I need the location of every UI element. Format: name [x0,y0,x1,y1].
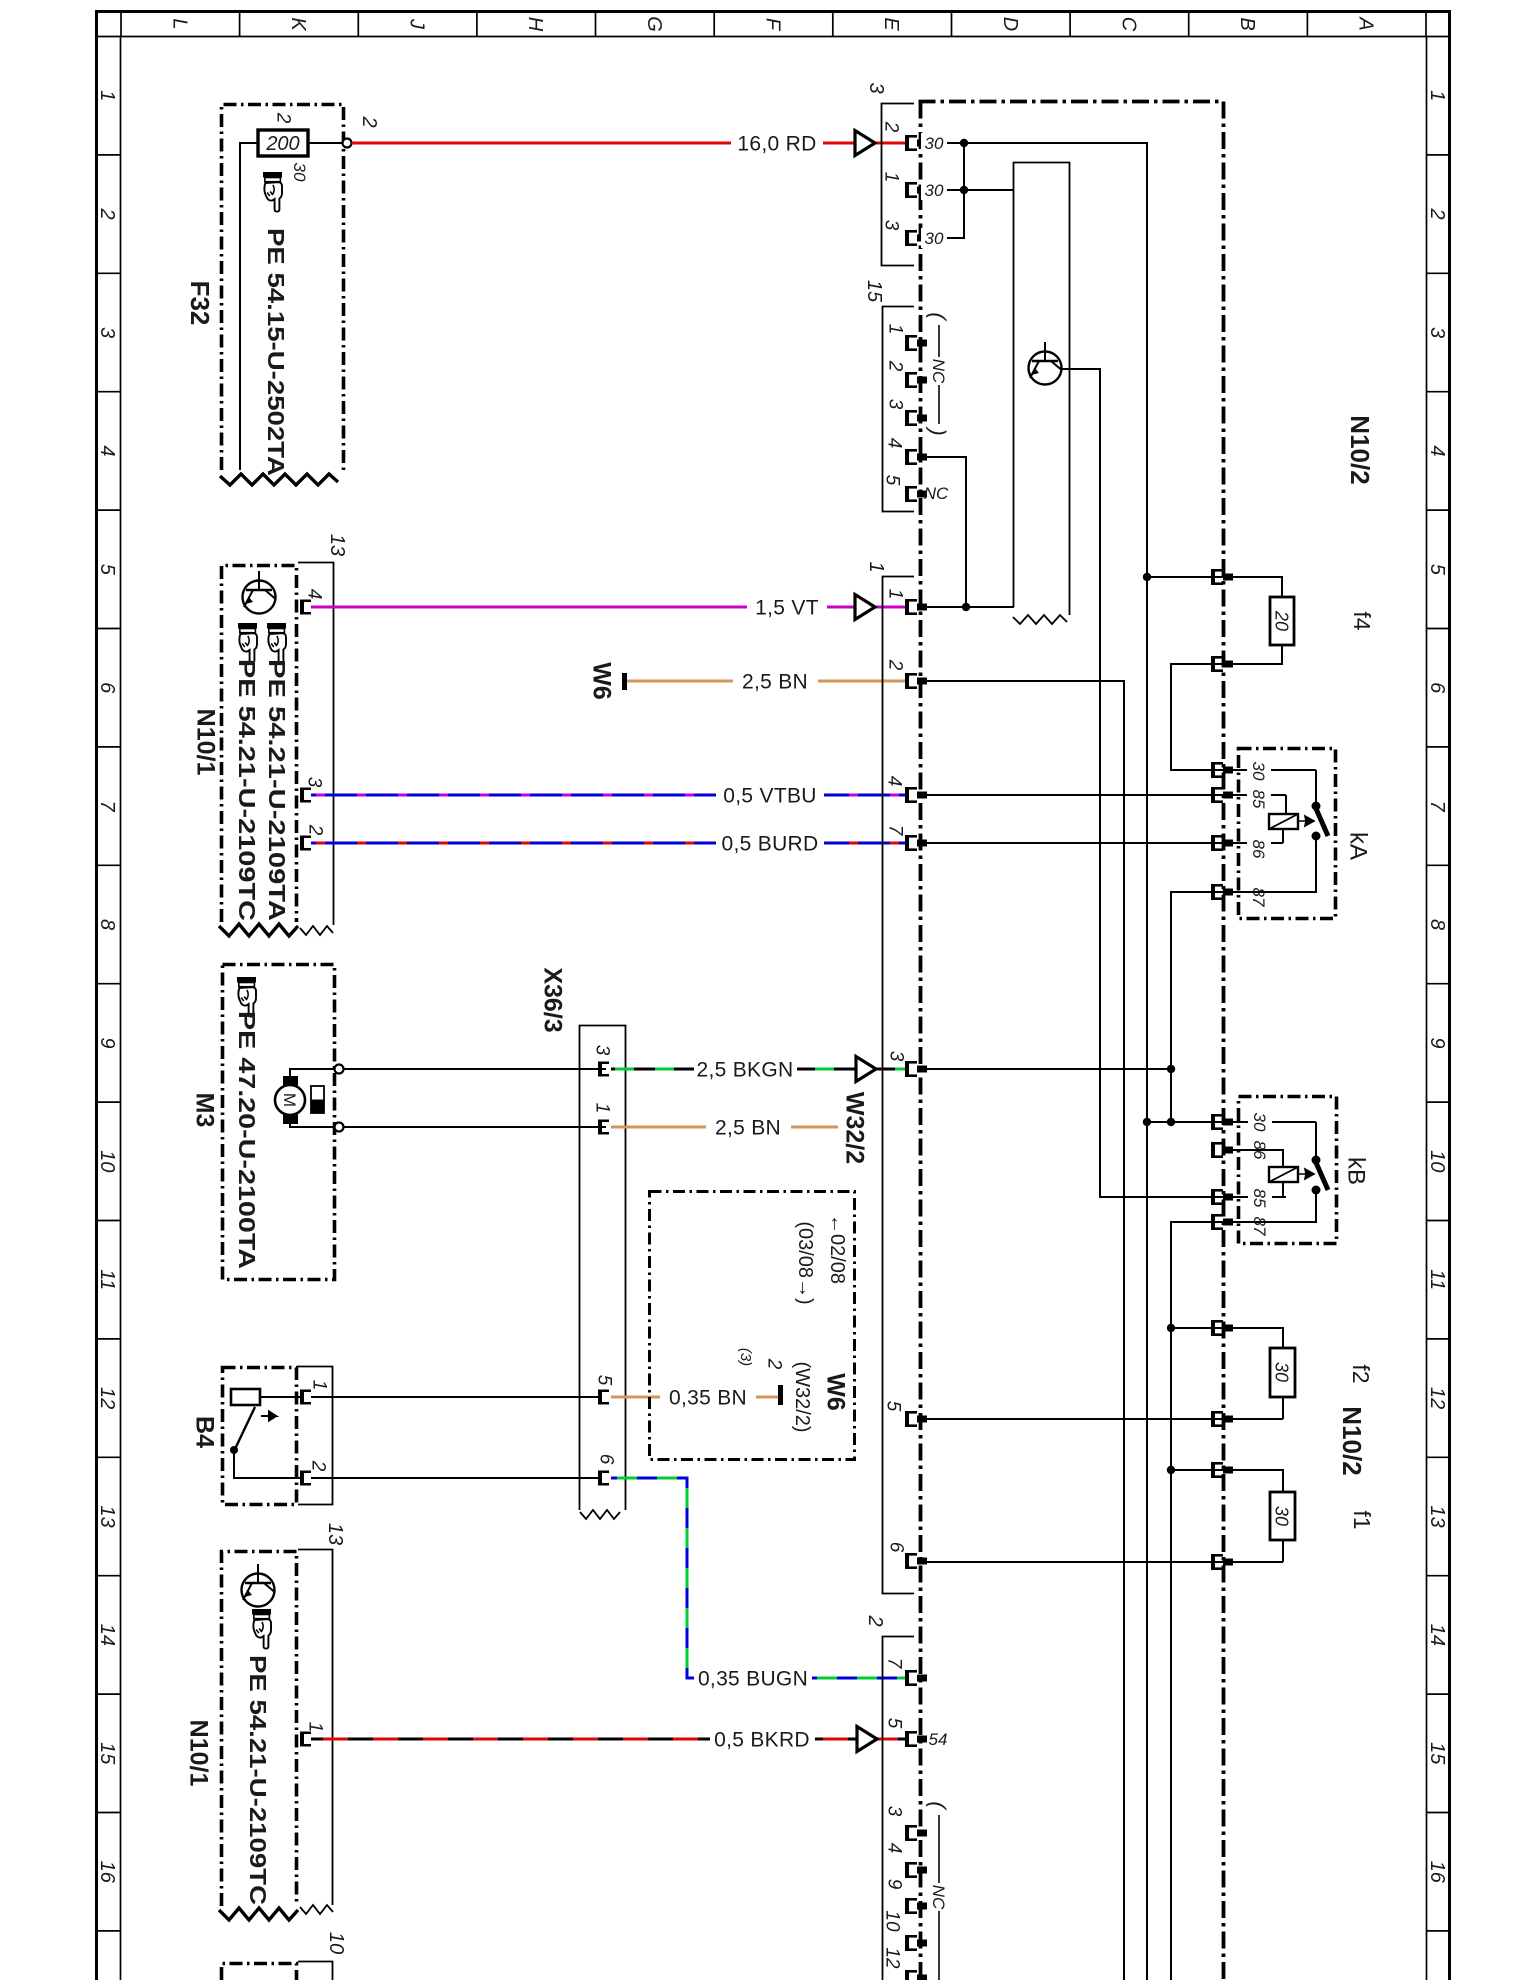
motor wire pin1 side [290,1069,334,1077]
conn3 pin 1 bracket [905,182,927,198]
svg-text:1: 1 [884,589,905,600]
svg-text:W32/2: W32/2 [840,1092,868,1164]
internal wire pin4 to kA-85 [921,794,1286,796]
wire label 0,35 BUGN [694,1667,812,1690]
svg-text:0,35 BUGN: 0,35 BUGN [698,1667,808,1690]
svg-text:85: 85 [1250,1189,1269,1208]
svg-text:J: J [406,18,428,30]
module right edge pin mark kA87 [1211,884,1233,900]
svg-text:7: 7 [1426,801,1448,813]
svg-text:2: 2 [763,1358,784,1370]
wire 2,5 BKGN [611,1068,905,1071]
kB coil [1269,1167,1298,1182]
svg-text:54: 54 [929,1730,948,1749]
conn15 NC line upper [938,325,940,357]
conn15 pin 3 bracket [905,410,927,426]
svg-text:3: 3 [96,327,118,338]
wire 0,5 BURD [311,842,905,845]
motor terminal tab bottom [283,1114,298,1124]
module connector 3 outline [882,104,915,266]
fuse f2 element [1270,1348,1295,1397]
frame top band separators [121,12,1426,37]
kB 85 wire to coil [1282,1182,1284,1197]
wire 0,5 VTBU [311,794,905,797]
conn2 pin 12 bracket [905,1970,927,1980]
svg-text:30: 30 [925,229,944,248]
svg-text:7: 7 [96,801,118,813]
module N10/2 right boundary dash-dot [1222,102,1226,1980]
module right edge pin mark f4 bottom [1211,656,1233,672]
X36/3 pin 5 bracket [598,1390,609,1405]
svg-text:2: 2 [1426,208,1448,220]
conn2 NC line lower [938,1911,940,1980]
svg-text:16: 16 [96,1861,118,1884]
kA switch blade [1314,804,1328,836]
conn15 NC line lower [938,385,940,424]
svg-text:5: 5 [593,1375,614,1386]
kA terminal 86 label [1247,837,1271,860]
output transistor symbol [1029,342,1062,385]
internal wire conn1 pin6 to fuse f1 [921,1561,1283,1563]
wire label 2,5 BKGN [694,1058,797,1081]
kA coil [1269,814,1298,829]
module connector 15 outline [883,307,915,512]
terminal 30 label pin3 [921,228,947,248]
svg-text:6: 6 [595,1454,616,1465]
internal wire conn1 pin5 to fuse f2 [921,1418,1283,1420]
conn1 pin 1 bracket [905,599,927,615]
wire label 2,5 BN [706,1116,791,1139]
fuse f2 output wire [1282,1397,1284,1419]
kA terminal 30 label [1247,759,1271,782]
svg-text:M3: M3 [190,1093,218,1128]
W6 terminal tick [622,673,627,690]
conn3 pin 3 bracket [905,230,927,246]
module right edge pin mark kB87 [1211,1214,1233,1230]
junction dot kA87 to pump [1167,1065,1175,1073]
svg-text:NC: NC [929,1885,948,1910]
svg-text:(03/08→): (03/08→) [794,1221,816,1304]
wire label 0,5 VTBU [716,784,824,807]
svg-text:4: 4 [883,1843,904,1854]
svg-text:←02/08: ←02/08 [826,1214,848,1284]
node circle at F32 output [343,139,352,148]
module right edge pin mark kB85 [1211,1189,1233,1205]
svg-text:2: 2 [304,824,325,836]
wire stub fuse to node [308,142,342,144]
kA switch upper contact dot [1312,802,1321,811]
svg-text:2: 2 [272,112,293,124]
svg-text:E: E [880,17,902,31]
conn1 pin 2 bracket [905,673,927,689]
svg-text:11: 11 [96,1269,118,1290]
svg-text:30: 30 [1272,1506,1292,1526]
svg-text:13: 13 [96,1505,118,1527]
kA 85 wire to coil [1285,795,1287,814]
svg-text:1: 1 [884,324,905,335]
wire label 0,5 BURD [716,832,824,855]
X36/3 pin 1 bracket [598,1120,609,1135]
splice terminal tick [778,1385,783,1405]
svg-text:(W32/2): (W32/2) [791,1361,813,1432]
svg-text:1: 1 [304,1722,325,1733]
node circle at M3 bottom [335,1123,344,1132]
svg-text:16,0 RD: 16,0 RD [737,132,816,155]
svg-text:9: 9 [883,1879,904,1890]
svg-text:2: 2 [96,208,118,220]
splice box W6 dash-dot outline [650,1192,855,1460]
conn15 pin 2 bracket [905,372,927,388]
svg-text:15: 15 [863,280,885,303]
kA switch lower contact dot [1312,832,1321,841]
svg-text:f4: f4 [1349,611,1375,630]
internal transistor symbol [243,571,276,614]
fuse f4 output wire to kA-30 [1171,645,1316,770]
svg-text:6: 6 [1426,682,1448,694]
svg-text:0,35 BN: 0,35 BN [669,1386,747,1409]
module right edge pin mark f2 bottom [1211,1411,1233,1427]
svg-text:13: 13 [326,534,348,556]
kB coil actuation arrow [1298,1169,1314,1179]
svg-text:5: 5 [883,1718,904,1729]
svg-text:4: 4 [1426,445,1448,456]
svg-text:12: 12 [1426,1387,1448,1409]
see-note hand symbol [252,1609,271,1649]
svg-text:4: 4 [96,445,118,456]
junction dot f1 feed [1167,1466,1175,1474]
transistor output wire to kB-85 [1061,369,1286,1197]
svg-text:N10/2: N10/2 [1337,1406,1367,1475]
kA 87 output wire [1171,836,1316,1122]
svg-text:13: 13 [1426,1505,1448,1527]
control unit N10/1 (upper) dash-dot outline [222,566,297,923]
kB switch input riser [1315,1122,1317,1159]
svg-text:3: 3 [1426,327,1448,338]
svg-text:M: M [280,1093,299,1107]
svg-text:10: 10 [325,1932,347,1954]
X36/3 pin 6 bracket [598,1471,609,1486]
svg-text:30: 30 [290,163,309,182]
svg-text:PE 47.20-U-2100TA: PE 47.20-U-2100TA [234,1011,260,1269]
module connector 1 outline [883,577,915,1594]
svg-text:2,5 BN: 2,5 BN [715,1116,781,1139]
module N10/2 left boundary dash-dot [919,102,923,1980]
svg-text:5: 5 [881,475,902,486]
frame left band separators [97,37,121,1931]
svg-text:6: 6 [96,682,118,694]
svg-text:K: K [287,17,309,32]
junction dot pin1 [960,186,968,194]
B4 switch pivot dot [230,1446,238,1454]
svg-text:3: 3 [865,82,887,93]
motor terminal tab top [283,1076,298,1086]
internal transistor symbol [242,1564,275,1607]
conn15 pin 5 bracket [905,486,927,502]
terminal 30 label pin1 [921,180,947,200]
svg-text:PE 54.15-U-2502TA: PE 54.15-U-2502TA [263,228,289,476]
svg-text:4: 4 [303,589,324,600]
svg-text:15: 15 [96,1742,118,1765]
svg-text:PE 54.21-U-2109TC: PE 54.21-U-2109TC [245,1655,271,1905]
svg-text:NC: NC [924,484,949,503]
svg-text:20: 20 [1272,610,1292,631]
svg-text:6: 6 [885,1542,906,1553]
svg-text:PE 54.21-U-2109TA: PE 54.21-U-2109TA [264,659,290,921]
svg-text:8: 8 [96,919,118,930]
kB switch lower contact dot [1312,1186,1321,1195]
terminal 30 label pin2 [921,133,947,153]
pin 2 bracket [300,836,311,851]
svg-text:10: 10 [96,1150,118,1172]
pin 1 bracket [300,1732,311,1747]
kA switch input riser [1315,770,1317,805]
svg-text:0,5 BURD: 0,5 BURD [722,832,819,855]
N10/1 lower connector strip [298,1550,333,1906]
wire M3 to X36/3 pin3 [344,1068,607,1070]
wire 1,5 VT [311,606,905,609]
svg-text:1: 1 [1426,90,1448,101]
svg-text:f2: f2 [1348,1364,1374,1383]
svg-text:3: 3 [591,1045,612,1056]
svg-text:N10/1: N10/1 [184,1720,212,1787]
svg-text:B4: B4 [190,1416,218,1448]
svg-text:11: 11 [1426,1269,1448,1290]
conn2 pin 9 bracket [905,1898,927,1914]
svg-text:2,5 BN: 2,5 BN [742,670,808,693]
fuse f1 feed wire [1171,1470,1283,1492]
svg-text:15: 15 [1426,1742,1448,1765]
svg-text:1: 1 [96,90,118,101]
svg-text:kA: kA [1345,832,1372,860]
fuse f4 element [1270,597,1294,645]
wire 0,35 BUGN vertical run [611,1478,905,1678]
svg-text:1,5 VT: 1,5 VT [755,596,819,619]
svg-text:5: 5 [96,564,118,576]
svg-text:10: 10 [1426,1150,1448,1172]
svg-text:3: 3 [303,777,324,788]
wire label 16,0 RD [731,132,823,155]
svg-text:8: 8 [1426,919,1448,930]
direction arrow on RD wire [855,131,875,156]
svg-text:7: 7 [884,825,905,837]
module connector 2 outline [883,1637,915,1980]
B4 wire to pin2 [234,1452,300,1478]
svg-text:kB: kB [1343,1157,1370,1185]
internal wire pin1 to board [927,189,1014,191]
svg-text:1: 1 [865,561,887,572]
internal wire pin7 to kA-86 [921,842,1283,844]
kB 30 feed wire [1147,1121,1316,1123]
svg-text:30: 30 [1250,1113,1269,1132]
svg-text:9: 9 [1426,1037,1448,1048]
fuse f2 feed wire [1171,1328,1283,1348]
svg-text:86: 86 [1249,840,1268,859]
svg-text:B: B [1236,17,1258,30]
kB terminal 30 label [1248,1110,1272,1133]
fuse f1 element [1270,1492,1295,1540]
kB terminal 86 label [1248,1138,1272,1161]
svg-text:14: 14 [96,1624,118,1646]
svg-text:C: C [1117,17,1139,32]
svg-text:2: 2 [864,1614,886,1626]
internal wire pin3 riser [927,143,964,238]
wire label 1,5 VT [747,596,827,619]
connector X36/3 body [580,1026,626,1511]
kA 86 wire to coil [1282,829,1284,843]
svg-text:87: 87 [1250,1217,1269,1236]
B4 sensor element [231,1389,260,1405]
conn2 pin 7 bracket [905,1670,927,1686]
svg-text:X36/3: X36/3 [538,967,566,1032]
B4 wire to pin1 [260,1396,300,1398]
B4 pin 2 bracket [300,1471,311,1486]
N10/1 lower torn-edge zigzag [219,1908,298,1920]
svg-text:7: 7 [883,1658,904,1670]
module right edge pin mark f2 top [1211,1320,1233,1336]
svg-text:3: 3 [885,1051,906,1062]
B4 actuation arrow [261,1412,276,1421]
svg-text:G: G [643,16,665,32]
wire B4 pin1 to X36/3 pin5 [311,1396,598,1398]
kB 87 output wire [1171,1190,1316,1980]
junction dot bus30 to kB30 [1143,1118,1151,1126]
conn3 pin 2 bracket [905,135,927,151]
conn2 pin 4 bracket [905,1862,927,1878]
svg-text:5: 5 [1426,564,1448,576]
direction arrow on BKRD wire [857,1727,877,1752]
svg-text:L: L [168,18,190,29]
wire 0,5 BKRD [311,1738,905,1741]
X36/3 torn zigzag [580,1510,620,1519]
inline connector arrow W32/2 [856,1057,876,1082]
kA terminal 85 label [1247,787,1271,810]
wire B4 pin2 to X36/3 pin6 [311,1477,598,1479]
svg-text:PE 54.21-U-2109TC: PE 54.21-U-2109TC [234,659,260,921]
module right edge pin mark f4 top [1211,569,1233,585]
conn15 pin 1 bracket [905,335,927,351]
svg-text:14: 14 [1426,1624,1448,1646]
conn2 pin 3 bracket [905,1825,927,1841]
junction dot kA87 to kB30 [1167,1118,1175,1126]
pump two-tone symbol [311,1086,324,1113]
F32 torn-edge zigzag [220,474,338,485]
wire from fuse to box interior [240,143,258,470]
svg-text:12: 12 [881,1947,902,1969]
svg-text:87: 87 [1249,888,1268,907]
fuse element 200 [258,130,308,156]
svg-text:0,5 VTBU: 0,5 VTBU [723,784,816,807]
svg-text:A: A [1355,16,1377,30]
conn2 NC line upper [938,1815,940,1883]
B4 pin 1 bracket [300,1390,311,1405]
svg-text:2: 2 [884,360,905,372]
svg-text:F: F [762,18,784,32]
svg-text:f1: f1 [1349,1510,1375,1529]
wire label 2,5 BN [733,670,818,693]
svg-text:F32: F32 [185,281,215,326]
module right edge pin mark kA86 [1211,835,1233,851]
conn1 pin 7 bracket [905,835,927,851]
N10/1 lower strip zigzag [300,1905,333,1914]
frame right band separators [1427,37,1450,1931]
wire 16,0 RD battery feed [352,142,906,145]
svg-text:10: 10 [881,1910,902,1932]
N10/1 upper strip zigzag [300,926,333,935]
kB terminal 85 label [1248,1186,1272,1209]
conn1 pin 6 bracket [905,1553,927,1569]
svg-text:9: 9 [96,1037,118,1048]
svg-text:2,5 BKGN: 2,5 BKGN [697,1058,794,1081]
svg-text:30: 30 [925,181,944,200]
internal board outline [1014,163,1070,616]
module right edge pin mark kA85 [1211,787,1233,803]
wire 2,5 BN from W6 [627,680,905,683]
svg-text:H: H [524,17,546,32]
N10/1 upper connector strip [298,563,334,926]
svg-text:(3): (3) [737,1348,754,1366]
module right edge pin mark kB86 [1211,1142,1233,1158]
svg-text:1: 1 [880,172,901,183]
svg-text:NC: NC [929,359,948,384]
conn1 pin 5 bracket [905,1411,927,1427]
internal ground wire pin2 [927,681,1124,1980]
relay kA dash-dot outline [1239,749,1336,919]
relay kB dash-dot outline [1239,1097,1337,1244]
X36/3 pin 3 bracket [598,1062,609,1077]
wire label 0,35 BN [660,1386,756,1409]
svg-text:85: 85 [1249,790,1268,809]
conn1 pin 4 bracket [905,787,927,803]
kA coil actuation arrow [1298,816,1314,826]
motor wire pin2 side [290,1123,334,1127]
wire 2,5 BN to W32/2 [611,1126,838,1129]
svg-text:1: 1 [308,1380,329,1391]
N10/1 upper torn-edge zigzag (box) [219,924,298,936]
see-note hand symbol 2 [267,623,286,663]
see-note hand symbol 1 [238,623,257,663]
module right edge pin mark f1 top [1211,1462,1233,1478]
internal wire 30 bus from pin 2 [927,143,1147,1980]
internal wire conn15 pin4 riser [921,457,966,607]
svg-text:W6: W6 [587,662,615,700]
svg-text:3: 3 [884,399,905,410]
svg-text:200: 200 [265,133,299,155]
node circle at M3 top [335,1065,344,1074]
pin 3 bracket [300,788,311,803]
conn1 pin 3 bracket [905,1061,927,1077]
see-note hand symbol [263,172,282,212]
svg-text:4: 4 [883,776,904,787]
frame right numbers [1426,90,1448,1884]
module right edge pin mark kA30 [1211,762,1233,778]
wire label 0,5 BKRD [710,1728,815,1751]
module right edge pin mark f1 bottom [1211,1554,1233,1570]
junction dot 30 bus top [960,139,968,147]
see-note hand symbol [237,977,256,1017]
svg-text:5: 5 [882,1401,903,1412]
control unit N10/1 (lower) dash-dot outline [222,1552,297,1907]
board torn zigzag [1013,615,1067,624]
B4 switch lever [235,1407,255,1449]
svg-text:D: D [999,17,1021,31]
svg-text:4: 4 [883,438,904,449]
module N10/2 top boundary dash-dot [919,100,1224,104]
svg-text:3: 3 [880,220,901,231]
conn2 pin 10 bracket [905,1935,927,1951]
junction dot VT row [962,603,970,611]
pin 4 bracket [300,600,311,615]
svg-text:16: 16 [1426,1861,1448,1884]
